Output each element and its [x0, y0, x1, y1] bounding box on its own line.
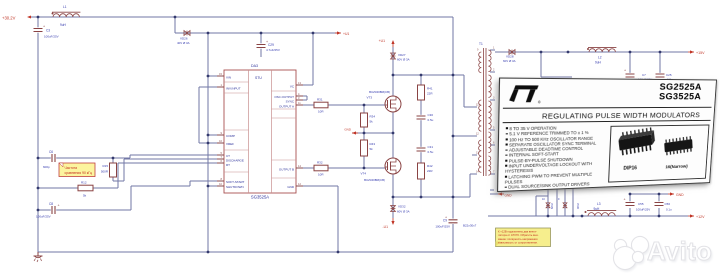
svg-text:22R: 22R — [427, 169, 433, 173]
svg-text:3: 3 — [493, 97, 495, 100]
svg-text:OUTPUT A: OUTPUT A — [279, 105, 294, 109]
svg-text:STU: STU — [255, 76, 262, 80]
svg-text:C25: C25 — [666, 73, 672, 77]
svg-text:3: 3 — [298, 96, 300, 100]
svg-text:VD28: VD28 — [506, 55, 514, 59]
svg-text:+U1: +U1 — [379, 39, 385, 43]
svg-text:R41: R41 — [427, 87, 433, 91]
svg-text:BUZ340BM(CB): BUZ340BM(CB) — [364, 178, 385, 182]
svg-text:12: 12 — [476, 133, 479, 136]
svg-text:2: 2 — [493, 69, 495, 72]
svg-text:1: 1 — [221, 83, 223, 87]
svg-text:+U1: +U1 — [343, 32, 349, 36]
svg-text:GND: GND — [505, 193, 513, 197]
svg-text:10: 10 — [542, 198, 545, 201]
svg-text:9uH: 9uH — [595, 61, 602, 65]
svg-text:BUZ340BM(CB): BUZ340BM(CB) — [369, 90, 390, 94]
svg-text:SYNC: SYNC — [286, 100, 295, 104]
svg-text:зависимость от сопротивления.: зависимость от сопротивления. — [498, 242, 538, 245]
svg-text:VD29: VD29 — [550, 203, 553, 210]
svg-text:+15V: +15V — [696, 51, 705, 55]
svg-text:100uF/25V: 100uF/25V — [435, 225, 450, 229]
svg-text:GND: GND — [287, 185, 295, 189]
svg-text:5k: 5k — [370, 120, 374, 124]
svg-text:CT: CT — [226, 154, 230, 158]
svg-text:К +12В подключены два венти-: К +12В подключены два венти- — [498, 230, 537, 234]
svg-text:8: 8 — [221, 177, 223, 181]
svg-text:5: 5 — [221, 151, 223, 155]
svg-text:+: + — [58, 204, 60, 208]
svg-text:GND: GND — [676, 193, 684, 197]
svg-text:600p: 600p — [43, 165, 50, 169]
svg-text:R34: R34 — [370, 115, 376, 119]
svg-text:4.7uF/25V: 4.7uF/25V — [266, 48, 280, 52]
svg-text:5k: 5k — [370, 147, 374, 151]
svg-text:6: 6 — [221, 159, 223, 163]
svg-text:+12V: +12V — [696, 215, 705, 219]
svg-text:9: 9 — [558, 198, 560, 201]
svg-text:R31: R31 — [317, 98, 323, 102]
svg-text:9uH: 9uH — [60, 23, 67, 27]
svg-text:C30: C30 — [428, 113, 434, 117]
svg-text:9: 9 — [477, 49, 479, 52]
svg-text:GND: GND — [344, 128, 352, 132]
svg-text:лятора от АТХ70. Обратить вни-: лятора от АТХ70. Обратить вни- — [498, 233, 538, 237]
svg-text:C7: C7 — [642, 73, 646, 77]
svg-text:C55: C55 — [638, 202, 644, 206]
svg-text:C31: C31 — [428, 145, 434, 149]
svg-text:мание: полярность напряжения: мание: полярность напряжения — [498, 238, 538, 241]
svg-text:C56: C56 — [665, 202, 671, 206]
svg-text:11: 11 — [298, 101, 301, 105]
svg-text:R42: R42 — [427, 164, 433, 168]
svg-text:+: + — [43, 25, 45, 29]
svg-text:22R: 22R — [427, 92, 433, 96]
svg-text:12: 12 — [298, 182, 301, 186]
svg-text:C3: C3 — [46, 29, 50, 33]
svg-text:0.5u: 0.5u — [428, 150, 434, 154]
svg-text:9uH: 9uH — [594, 207, 601, 211]
svg-text:L3: L3 — [597, 202, 601, 206]
svg-text:B22x30x7: B22x30x7 — [463, 224, 477, 228]
svg-text:100uF/25V: 100uF/25V — [36, 215, 51, 219]
svg-text:+: + — [624, 69, 626, 73]
svg-text:C29: C29 — [268, 43, 274, 47]
svg-text:RT: RT — [226, 163, 230, 167]
svg-text:VD27: VD27 — [398, 53, 406, 57]
svg-text:DA3: DA3 — [251, 64, 258, 68]
svg-text:16(Narrow): 16(Narrow) — [665, 165, 688, 170]
svg-text:100uF/25V: 100uF/25V — [44, 35, 59, 39]
svg-text:40V Ø 3A: 40V Ø 3A — [177, 41, 190, 45]
svg-text:13: 13 — [298, 81, 301, 85]
svg-text:SOFT-START: SOFT-START — [226, 180, 245, 184]
svg-text:5: 5 — [493, 127, 495, 130]
svg-text:VT3: VT3 — [366, 96, 372, 100]
svg-text:60V Ø 3A: 60V Ø 3A — [397, 209, 410, 213]
svg-text:VD32: VD32 — [398, 205, 406, 209]
svg-text:0.1u: 0.1u — [666, 208, 672, 212]
svg-text:60V Ø 3A: 60V Ø 3A — [503, 59, 516, 63]
svg-text:VIN: VIN — [226, 76, 231, 80]
svg-text:L2: L2 — [598, 56, 602, 60]
svg-text:15: 15 — [219, 72, 222, 76]
svg-text:+: + — [624, 198, 626, 202]
svg-text:+30.2V: +30.2V — [2, 15, 16, 20]
svg-text:100uF/25V: 100uF/25V — [636, 208, 650, 212]
svg-text:7: 7 — [493, 171, 495, 174]
svg-text:INV.INPUT: INV.INPUT — [226, 87, 241, 91]
svg-text:R12: R12 — [81, 181, 87, 185]
svg-text:-U1: -U1 — [383, 225, 389, 229]
svg-text:4: 4 — [298, 92, 300, 96]
svg-text:VD30: VD30 — [576, 203, 579, 210]
svg-text:COMP: COMP — [226, 134, 235, 138]
svg-text:C9: C9 — [443, 219, 447, 223]
svg-text:VREF: VREF — [226, 142, 234, 146]
svg-text:14: 14 — [298, 164, 301, 168]
svg-text:VD26: VD26 — [180, 37, 188, 41]
svg-text:T1: T1 — [479, 42, 483, 46]
svg-text:Частота: Частота — [65, 166, 78, 170]
svg-text:R15: R15 — [102, 164, 108, 168]
svg-text:C8: C8 — [49, 202, 53, 206]
svg-text:9: 9 — [221, 131, 223, 135]
svg-text:R32: R32 — [317, 161, 323, 165]
svg-text:SHUTDOWN: SHUTDOWN — [226, 185, 244, 189]
svg-text:10R: 10R — [318, 173, 324, 177]
svg-text:L1: L1 — [63, 5, 67, 9]
svg-text:500R: 500R — [101, 170, 109, 174]
svg-text:6: 6 — [493, 142, 495, 145]
svg-text:7: 7 — [221, 155, 223, 159]
svg-text:OSC.OUTPUT: OSC.OUTPUT — [274, 95, 294, 99]
svg-text:10R: 10R — [318, 110, 324, 114]
svg-text:60V Ø 3A: 60V Ø 3A — [397, 58, 410, 62]
svg-text:OUTPUT B: OUTPUT B — [279, 168, 294, 172]
svg-text:0.5u: 0.5u — [428, 118, 434, 122]
svg-text:16: 16 — [219, 139, 222, 143]
svg-text:сравнения 90 кГц: сравнения 90 кГц — [65, 171, 93, 175]
svg-text:10: 10 — [219, 182, 222, 186]
svg-text:R43: R43 — [370, 142, 376, 146]
svg-text:DIP16: DIP16 — [623, 165, 637, 171]
svg-text:1: 1 — [493, 47, 495, 50]
svg-text:DISCHARGE: DISCHARGE — [226, 159, 244, 163]
svg-text:C6: C6 — [49, 150, 53, 154]
svg-text:5k: 5k — [83, 194, 87, 198]
svg-text:VT4: VT4 — [360, 172, 366, 176]
svg-text:SG3525A: SG3525A — [251, 195, 269, 200]
